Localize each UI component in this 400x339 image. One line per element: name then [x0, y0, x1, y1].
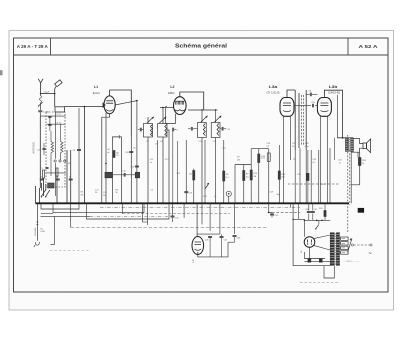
- osc CV3 arrow: [201, 116, 208, 122]
- heater cap dot b: [319, 259, 322, 263]
- drawing frame: [14, 38, 389, 292]
- wire gang right link: [167, 130, 169, 203]
- wire left risers to bus: [35, 186, 37, 203]
- svg-text:50μ: 50μ: [277, 194, 280, 196]
- padder capacitor dark a: [105, 172, 112, 178]
- padder capacitor dark b: [135, 172, 139, 178]
- lower loop: [324, 266, 334, 278]
- dash y213.7: [123, 213, 231, 215]
- svg-text:L2: L2: [170, 85, 174, 89]
- node plug branch: [54, 93, 56, 95]
- dial cord dashed: [347, 135, 349, 232]
- capacitor row c b: [56, 178, 60, 180]
- wire drop x122: [122, 203, 124, 213]
- field coil R30: [358, 158, 361, 166]
- resistor R11: [258, 154, 260, 163]
- wire drop x147: [147, 203, 149, 225]
- resistor R8: [223, 171, 225, 181]
- bus junction dots: [84, 203, 86, 205]
- faint dash y250: [50, 250, 89, 252]
- wire riser x157.5: [157, 140, 159, 203]
- tube V1 envelope: [104, 96, 115, 114]
- tube V3 envelope: [280, 98, 294, 117]
- antenna switch: [39, 102, 43, 106]
- wire riser x251: [250, 149, 252, 204]
- antenna coupling coil: [40, 96, 42, 103]
- mains switch: [316, 224, 319, 228]
- voltage selector feed: [340, 237, 341, 239]
- rectifier tube V6: [304, 237, 315, 248]
- svg-text:L3a: L3a: [269, 85, 279, 89]
- wire psu left risers: [298, 203, 300, 219]
- wire riser x330: [329, 148, 331, 203]
- dashdot y207.5: [100, 207, 300, 209]
- rectifier anodes: [307, 240, 309, 243]
- svg-text:1k: 1k: [362, 163, 364, 165]
- speaker HP: [363, 143, 367, 149]
- power box outline: [293, 203, 334, 265]
- svg-text:POL: POL: [312, 102, 316, 104]
- cluster lower coils: [43, 170, 45, 178]
- wire riser x84: [83, 107, 85, 204]
- pilot lamp: [226, 191, 231, 196]
- tuning cap CV1 vanes: [150, 125, 152, 137]
- svg-text:EBF2: EBF2: [168, 91, 175, 95]
- tube V5 envelope: [192, 237, 204, 255]
- tuning cap CV1 frame: [144, 124, 153, 138]
- antenna: [38, 79, 40, 94]
- tuning cap CV2 frame: [158, 124, 167, 138]
- wire drop x184: [183, 203, 185, 218]
- dashdot y216.4: [41, 215, 91, 217]
- svg-text:ANTENNE: ANTENNE: [32, 142, 35, 154]
- capacitor C2: [40, 115, 65, 117]
- wire plug down: [54, 89, 56, 106]
- cap cluster below x270: [270, 213, 274, 215]
- wire antenna line down: [39, 117, 41, 188]
- heater line: [304, 258, 325, 260]
- wire V2 plate top: [180, 92, 204, 110]
- series capacitor C1: [39, 103, 41, 110]
- capacitor right of CV4: [220, 128, 221, 130]
- svg-text:- - - 220 V - - - - - - -: - - - 220 V - - - - - - -: [343, 261, 361, 263]
- svg-text:L1: L1: [94, 85, 98, 89]
- svg-text:1M: 1M: [253, 176, 256, 178]
- osc CV3 vanes: [203, 124, 205, 136]
- wire pot right leg: [54, 217, 56, 245]
- antenna node: [40, 93, 42, 95]
- wire V1 bottom hook: [102, 114, 110, 204]
- wire riser x223.75: [223, 140, 225, 203]
- wire xfrm to speaker bottom: [352, 148, 363, 152]
- capacitor row c c: [69, 178, 73, 180]
- capacitor C40b: [312, 203, 314, 210]
- svg-text:C2 4,7: C2 4,7: [56, 114, 63, 116]
- input shield box (dashed): [46, 112, 65, 187]
- wire V5 top link: [197, 233, 220, 235]
- wire field coil return: [351, 151, 360, 184]
- power transformer primary: [330, 233, 334, 266]
- wire riser x311: [310, 150, 312, 203]
- title cell divider right: [347, 38, 349, 55]
- wave switch contacts: [42, 190, 46, 196]
- trimmer a: [43, 148, 46, 150]
- svg-text:2M: 2M: [81, 195, 84, 197]
- selector arrow: [348, 238, 353, 252]
- tube V4 envelope: [317, 98, 331, 117]
- output transformer core: [349, 139, 351, 151]
- svg-text:(Ti 1/2) B: (Ti 1/2) B: [267, 93, 281, 95]
- oscillator coil box top: [113, 137, 122, 203]
- title band bottom rule: [14, 54, 389, 56]
- mains pin b: [370, 244, 372, 246]
- chassis bus: [36, 202, 350, 204]
- wire pad link: [113, 174, 124, 176]
- capacitor row c a: [40, 178, 44, 180]
- wire CV1 feed: [147, 117, 149, 124]
- capacitor C13: [135, 165, 139, 167]
- svg-text:2n: 2n: [150, 162, 152, 164]
- wire mid left riser: [55, 112, 57, 159]
- tube V1 grids: [106, 100, 113, 102]
- output transformer secondary: [351, 139, 354, 152]
- wire V3 top: [287, 90, 295, 97]
- wire osc gang header: [188, 109, 218, 111]
- osc CV4 arrow: [215, 116, 222, 122]
- voltage selector stack: [341, 237, 349, 240]
- svg-text:1n: 1n: [339, 162, 341, 164]
- tuning cap CV1 arrow: [147, 117, 154, 123]
- capacitor C28: [234, 203, 236, 234]
- svg-text:10n: 10n: [189, 174, 192, 176]
- wire riser x318 avc: [318, 150, 320, 203]
- wire L3b right drop: [336, 95, 338, 138]
- wire riser x334: [334, 138, 336, 160]
- svg-text:3k: 3k: [116, 192, 118, 194]
- wire V4 top loop: [324, 90, 342, 138]
- svg-text:~: ~: [369, 251, 372, 257]
- coil L a1: [51, 142, 54, 153]
- svg-text:1n: 1n: [214, 196, 216, 198]
- svg-text:0,1μ: 0,1μ: [305, 146, 309, 148]
- wire below y212.7: [53, 203, 144, 212]
- paper sheet: [9, 31, 394, 311]
- svg-text:C41: C41: [314, 209, 317, 211]
- power transformer secondary: [336, 233, 339, 266]
- wire rect plate diag a: [314, 235, 330, 239]
- svg-text:10n: 10n: [103, 195, 106, 197]
- coil L a2: [61, 142, 64, 153]
- wire step y164: [235, 164, 251, 166]
- wire IF risers to bus: [294, 150, 296, 203]
- scan speckle: [0, 0, 1, 1]
- capacitor below C25: [171, 215, 175, 217]
- switch terminals: [54, 160, 56, 162]
- capacitor C16 right of gang: [172, 128, 174, 132]
- resistor R psu: [324, 211, 326, 217]
- wire V1 cathode down: [105, 113, 107, 204]
- node bus left a: [52, 203, 54, 205]
- capacitor C8 top: [309, 93, 311, 97]
- wire drop x268 below: [268, 203, 270, 212]
- heater cap dot a: [308, 259, 311, 263]
- osc tuning cap CV4 frame: [211, 123, 220, 138]
- dash below right: [268, 212, 301, 214]
- svg-text:L3b: L3b: [329, 85, 338, 89]
- volume pot below bus: [36, 203, 38, 240]
- IF can core dashes: [301, 95, 303, 146]
- wire CV2 to bus: [162, 137, 164, 203]
- capacitor on x79: [77, 149, 81, 151]
- coupling cap mid: [294, 105, 311, 107]
- wire riser x186: [185, 140, 187, 203]
- svg-text:50k: 50k: [282, 177, 285, 179]
- svg-text:C40: C40: [305, 209, 308, 211]
- capacitor C3: [47, 123, 66, 125]
- tube V2 diode arcs: [175, 110, 185, 111]
- wire sw verticals: [41, 183, 43, 191]
- node bus left b: [66, 203, 68, 205]
- svg-text:R20: R20: [319, 208, 322, 210]
- wire riser x235: [234, 165, 236, 204]
- IF can windings: [294, 90, 296, 150]
- wire antenna to plug branch: [41, 93, 55, 95]
- svg-text:(2453-B): (2453-B): [328, 93, 340, 95]
- avc dash line: [288, 183, 339, 185]
- trimmer b: [46, 167, 49, 169]
- volume pot arrow: [205, 183, 209, 189]
- wire step y148: [251, 148, 269, 150]
- wire riser x268.7: [268, 149, 270, 204]
- node xfrm top: [342, 137, 344, 139]
- tube V4 electrodes: [320, 102, 328, 104]
- binder mark left edge: [0, 71, 2, 76]
- wire below y219: [87, 203, 170, 219]
- wire below y209: [41, 203, 79, 209]
- wire riser x177.5: [177, 141, 179, 203]
- title cell divider left: [50, 38, 52, 55]
- node below right: [268, 212, 269, 213]
- plug P1: [55, 80, 62, 87]
- resistor R12: [278, 145, 280, 203]
- wire V2 cathode: [166, 114, 176, 124]
- tube V5 electrodes: [195, 241, 201, 243]
- wire riser x205: [204, 140, 206, 203]
- svg-text:ECH3: ECH3: [93, 91, 100, 95]
- wire xfrm to speaker top: [354, 139, 364, 144]
- mains dashed cord: [354, 244, 370, 246]
- capacitor left of CV3: [188, 128, 191, 130]
- dash y227.5: [70, 203, 72, 227]
- svg-text:1M: 1M: [237, 160, 240, 162]
- capacitor pair a: [208, 236, 212, 238]
- osc CV4 vanes: [217, 124, 219, 136]
- wire grid diag: [115, 101, 137, 105]
- wire V4 bottom risers: [319, 116, 321, 203]
- capacitor C14 left of gang: [138, 129, 140, 131]
- wire CV4 feed: [215, 110, 217, 123]
- tube V2 grid hatch: [175, 101, 177, 104]
- wire CV2 feed: [162, 108, 164, 124]
- resistor R10: [250, 170, 252, 180]
- tube V2 envelope: [174, 97, 187, 115]
- wire speaker field coil drop: [357, 152, 359, 157]
- wire CV1 to bus: [147, 137, 149, 203]
- footer dash under psu: [300, 281, 340, 283]
- tuning cap CV2 vanes: [165, 125, 167, 137]
- resistor R4 af: [193, 169, 195, 204]
- bus end blob: [358, 208, 364, 212]
- svg-text:C3 70: C3 70: [56, 122, 62, 124]
- wire osc riser x136.9: [136, 101, 138, 172]
- resistor R osc: [113, 151, 115, 158]
- tuning cap CV2 arrow: [159, 117, 166, 123]
- wire rect plate diag b: [314, 245, 330, 250]
- power transformer core: [334, 234, 336, 266]
- heater bottom line: [304, 261, 330, 263]
- wire V5 feed: [196, 203, 198, 237]
- capacitor pair b: [220, 236, 224, 238]
- output transformer primary: [345, 139, 348, 152]
- svg-text:0,5M: 0,5M: [40, 231, 45, 233]
- svg-text:VOLUME: VOLUME: [35, 227, 37, 236]
- selector voltage marks: [342, 238, 345, 240]
- wire riser x172.8: [172, 131, 174, 203]
- wire V1 plate riser to bus: [130, 137, 132, 203]
- wire grid feed tube1: [64, 106, 104, 108]
- wire V1 plate top: [110, 90, 132, 137]
- wire drop x142: [142, 203, 144, 222]
- mains pin a: [351, 244, 353, 246]
- tube V3 electrodes: [283, 102, 291, 104]
- terminal block: [55, 107, 64, 112]
- wire grid2 feed: [160, 107, 174, 109]
- wire psu y220: [304, 219, 330, 221]
- wire V3 bottom risers: [283, 116, 285, 203]
- capacitor C10 on plate riser: [129, 151, 133, 153]
- osc tuning cap CV3 frame: [198, 123, 207, 138]
- wire V5 bottom loop: [197, 252, 199, 255]
- wire psu entry: [293, 218, 304, 220]
- capacitor C12: [123, 173, 125, 177]
- jack J1: [35, 242, 39, 245]
- wire riser x79: [78, 108, 80, 203]
- wire V2 left stub: [166, 106, 167, 108]
- wire CV3 feed: [201, 110, 203, 123]
- tube V1 grid lead blob: [103, 102, 106, 108]
- wire riser x243.7: [243, 165, 245, 204]
- capacitor C40a: [308, 203, 310, 210]
- wire xfrm top bar: [337, 137, 353, 139]
